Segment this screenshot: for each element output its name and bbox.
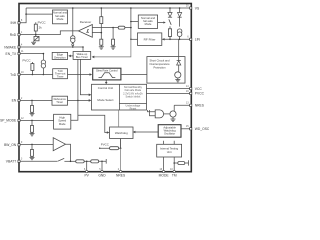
gate U3 [148,110,156,116]
svg-text:Mode: Mode [59,122,66,126]
wire TxD [19,74,53,76]
filter cap resistor + ground [112,28,114,40]
svg-text:5: 5 [99,168,101,171]
wire slope to mode control [105,80,107,82]
svg-text:Mode: Mode [145,22,152,26]
divider resistor upper [100,8,102,39]
svg-text:EN: EN [12,99,17,103]
svg-text:Short Circuit and: Short Circuit and [149,59,170,63]
svg-text:NRES: NRES [116,174,126,178]
svg-text:9: 9 [21,141,23,144]
svg-text:6: 6 [84,168,86,171]
svg-text:Switch Inhibit: Switch Inhibit [126,95,141,98]
pin circles bottom [86,170,88,172]
transistor NRES [170,111,176,117]
wire high speed to watchdog [78,115,107,132]
current source TxD pull-up [42,54,44,75]
svg-text:3: 3 [21,158,23,161]
pin squares right [190,7,192,9]
wire WD_OSC [181,128,191,130]
current source LIN [177,29,182,34]
wire debounce to mode control [68,99,90,101]
wire VBAT [19,160,57,162]
svg-text:Receiver: Receiver [80,20,91,24]
box U2 normal and fail-safe mode (right) [138,15,157,28]
box wake-up bus timer [73,52,91,60]
svg-text:PVCC: PVCC [195,92,205,96]
svg-text:VS: VS [195,6,200,10]
svg-text:11: 11 [21,50,24,53]
wire wake/high-speed column [71,59,78,120]
wire pin drops [87,161,102,170]
svg-text:2k: 2k [39,25,43,29]
box adjustable watchdog oscillator [158,125,181,138]
svg-text:Timer: Timer [57,74,64,78]
diode D1 [169,8,171,29]
svg-text:NRES: NRES [195,104,205,108]
svg-text:BW_ON: BW_ON [4,143,17,147]
svg-text:Protection: Protection [153,66,166,70]
svg-text:PV: PV [84,174,89,178]
buffer BW_ON [19,143,53,145]
svg-text:8: 8 [21,19,23,22]
wire to fail-safe box right [131,21,138,23]
switch on RxD pull-down [35,35,37,37]
svg-text:Control Unit: Control Unit [98,86,113,90]
resistor VBAT 1 [76,160,85,163]
svg-text:Mode: Mode [57,17,64,21]
box debounce timer [52,96,68,105]
svg-text:2: 2 [21,97,23,100]
svg-text:TM: TM [172,174,177,178]
node RxD pullup [35,34,37,36]
svg-text:GND: GND [98,174,106,178]
wire NRES bottom [120,139,122,171]
svg-text:4: 4 [21,43,23,46]
svg-text:PVCC: PVCC [23,58,31,62]
box edge detection [52,52,67,59]
svg-text:10: 10 [170,168,173,171]
box short circuit and overtemperature protection [147,57,185,84]
wire RxD [19,31,78,35]
wire mode control to watchdog [118,110,120,127]
wire ITU to osc [164,141,175,145]
svg-text:Bus Timer: Bus Timer [76,55,88,59]
svg-text:MODE: MODE [159,174,170,178]
box TxD time-out timer [53,69,68,79]
wire VS rail [26,7,191,9]
chip outer border [19,4,191,172]
box watchdog [110,127,133,139]
resistor SP_MODE pull-down + ground [30,120,35,135]
svg-text:NWAKE: NWAKE [4,45,17,49]
resistor TM + terminal [173,162,175,164]
wire INH to mode box [26,13,52,15]
ground RxD switch [31,41,36,44]
svg-text:19: 19 [186,90,189,93]
resistor LIN pull-up [168,29,171,37]
filter resistor to LIN sense [112,27,114,29]
transistor LIN driver [178,39,180,60]
svg-text:Unit: Unit [167,150,172,154]
svg-text:RxD: RxD [10,33,17,37]
svg-text:Slew Rate Control: Slew Rate Control [96,68,118,72]
svg-text:1: 1 [21,31,23,34]
svg-text:WD_OSC: WD_OSC [195,127,209,131]
svg-text:Detection: Detection [54,56,66,60]
svg-text:VBATT: VBATT [6,160,16,164]
resistor BW pull-down + ground [30,144,35,159]
svg-text:Watchdog: Watchdog [115,131,128,135]
svg-text:2: 2 [118,168,120,171]
svg-text:10: 10 [21,71,24,74]
box U1 normal and fail-safe mode (left) [53,10,68,24]
svg-text:INH: INH [11,21,17,25]
current source wake pull-up [72,8,74,47]
diode D2 [179,8,181,27]
op-amp receiver [78,25,92,38]
svg-text:16: 16 [159,168,162,171]
resistor EN pull-down + ground [30,100,35,116]
wire wake to edge w/ arrow [71,55,73,57]
svg-text:15: 15 [186,125,189,128]
svg-text:Mode Select: Mode Select [97,98,113,102]
svg-text:Timer: Timer [56,100,63,104]
svg-text:SP_MODE: SP_MODE [0,119,17,123]
wire osc to watchdog w/ arrow [135,131,158,133]
resistor pull-up 2k on RxD [35,22,37,34]
svg-text:PVCC: PVCC [38,20,46,24]
svg-text:Reset: Reset [130,108,137,111]
wire TM drop [173,157,175,171]
wire slope to driver [121,73,174,75]
node rail-INH branch [25,13,27,15]
svg-text:6: 6 [187,36,189,39]
svg-text:Oscillator: Oscillator [164,131,175,135]
box high speed mode [54,114,71,129]
wire PVCC [147,92,191,94]
wire NRES [174,104,191,106]
wire NWAKE [19,46,83,48]
receiver input wires [92,27,113,29]
wire VS to LIN divider column [130,8,132,39]
wire INH riser [19,8,26,23]
switch to LIN pull-up [158,22,164,24]
divider resistor lower + ground [100,39,103,45]
box RF filter [138,33,162,46]
wire wake to mode control [80,59,89,94]
wire SP_MODE [19,119,54,121]
svg-text:EN_TX: EN_TX [6,52,17,56]
svg-text:Overtemperature: Overtemperature [149,62,170,66]
svg-text:PVCC: PVCC [101,142,109,146]
box slew rate control [93,68,121,80]
wire EN [19,99,52,101]
wire RF filter to wake-up [94,39,131,57]
svg-text:VCC: VCC [195,87,203,91]
svg-text:12: 12 [21,117,24,120]
wire VCC [147,88,191,90]
wire wake box top drop [82,47,84,52]
box internal testing unit [157,144,182,157]
svg-text:RF Filter: RF Filter [144,37,156,41]
wire LIN [162,38,191,40]
wire EN_TX [19,53,43,55]
wire TxD timer to slope [68,74,90,76]
svg-text:14: 14 [186,85,189,88]
wire MODE drop [163,157,165,171]
pin squares left [18,22,20,24]
svg-text:LIN: LIN [195,38,201,42]
svg-text:TxD: TxD [10,73,17,77]
svg-text:20: 20 [186,4,189,7]
resistor VBAT 2 [91,160,99,163]
box control unit / mode select [92,84,147,110]
svg-text:13: 13 [186,102,189,105]
